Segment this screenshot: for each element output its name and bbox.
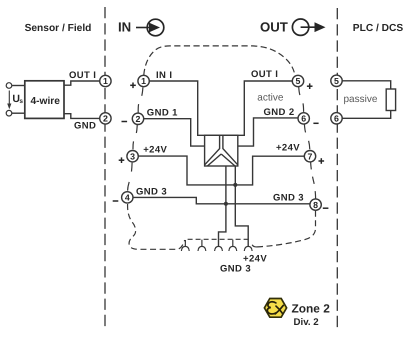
- device dashed outline top arc: [128, 46, 316, 249]
- terminal circle B1: [100, 75, 111, 86]
- svg-text:GND 3: GND 3: [273, 193, 304, 204]
- device outline seg 2-3: [133, 125, 137, 150]
- polarity + at terminal 1: [130, 83, 136, 89]
- svg-text:4-wire: 4-wire: [30, 96, 60, 107]
- svg-text:OUT I: OUT I: [69, 70, 96, 81]
- svg-text:GND 2: GND 2: [264, 107, 295, 118]
- svg-text:GND: GND: [74, 120, 96, 131]
- device terminal 6: [298, 113, 309, 124]
- svg-text:passive: passive: [344, 94, 378, 105]
- svg-text:Div. 2: Div. 2: [294, 317, 319, 328]
- isolator U1 (3-port isolation symbol): [205, 135, 238, 166]
- device terminal 3: [127, 151, 138, 162]
- wire field top to 4-wire box: [12, 85, 25, 87]
- polarity - at terminal 6: [313, 122, 318, 124]
- device outline seg 6-7: [304, 124, 309, 150]
- svg-text:Sensor / Field: Sensor / Field: [25, 23, 92, 34]
- device outline bottom row through plugs: [188, 238, 250, 240]
- plug contact 2: [198, 240, 206, 251]
- field terminal bottom: [6, 110, 12, 116]
- 4-wire transmitter box: [25, 81, 64, 119]
- field terminal top: [6, 83, 12, 89]
- svg-text:OUT I: OUT I: [251, 69, 278, 80]
- terminal circle B6: [331, 113, 342, 124]
- svg-text:IN I: IN I: [156, 70, 172, 81]
- svg-text:5: 5: [296, 76, 301, 86]
- source voltage arrow Us: [7, 91, 23, 110]
- svg-text:GND 1: GND 1: [147, 107, 178, 118]
- polarity + at terminal 5: [307, 83, 313, 89]
- wire GND 1 to isolator: [144, 119, 205, 146]
- svg-text:6: 6: [334, 114, 339, 124]
- junction dot GND 3: [224, 202, 228, 206]
- device outline seg 7-8: [311, 162, 316, 199]
- wire isolator +24V branch to plug 5: [235, 166, 248, 247]
- polarity - at terminal 4: [113, 200, 119, 202]
- wire +24V rail: [138, 156, 304, 185]
- terminal circle B5: [331, 75, 342, 86]
- svg-text:2: 2: [103, 114, 108, 124]
- svg-text:2: 2: [136, 114, 141, 124]
- svg-text:GND 3: GND 3: [220, 264, 251, 275]
- polarity - at terminal 2: [122, 121, 128, 123]
- device outline seg 5-6: [299, 87, 304, 113]
- svg-text:1: 1: [141, 76, 146, 86]
- zone boundary dashed line left (Sensor/Field): [104, 7, 106, 330]
- device terminal 7: [304, 151, 315, 162]
- passive load loop wires: [342, 81, 391, 89]
- svg-text:6: 6: [301, 114, 306, 124]
- device terminal 2: [132, 113, 143, 124]
- Ex hazardous area symbol: [264, 299, 286, 318]
- svg-text:4: 4: [125, 193, 130, 203]
- svg-text:Zone 2: Zone 2: [292, 302, 331, 316]
- resistor load R: [386, 89, 395, 111]
- svg-text:7: 7: [308, 151, 313, 161]
- device outline seg 3-4: [128, 163, 133, 191]
- polarity + at terminal 7: [319, 158, 325, 164]
- device outline seg 4-bottom: [128, 204, 185, 249]
- wire isolator GND branch to plug 3: [219, 166, 226, 247]
- svg-text:+24V: +24V: [276, 143, 300, 154]
- terminal circle B2: [100, 113, 111, 124]
- OUT label with output arrow icon: [260, 19, 326, 35]
- svg-text:IN: IN: [118, 19, 131, 34]
- plug contact 4: [229, 240, 237, 251]
- device terminal 8: [310, 199, 321, 210]
- wire IN I to isolator and OUT I from isolator: [149, 81, 292, 135]
- wire 4-wire GND to terminal 2: [64, 114, 100, 119]
- IN label with input arrow icon: [118, 19, 164, 36]
- svg-text:s: s: [19, 98, 23, 105]
- svg-text:active: active: [257, 92, 284, 103]
- device outline seg 1-2: [138, 87, 143, 113]
- svg-text:OUT: OUT: [260, 19, 288, 34]
- svg-text:GND 3: GND 3: [136, 187, 167, 198]
- svg-text:PLC / DCS: PLC / DCS: [353, 23, 404, 34]
- wire GND 2 from isolator: [238, 118, 298, 146]
- wire field bottom to 4-wire box: [12, 112, 25, 114]
- polarity - at terminal 8: [323, 207, 329, 209]
- svg-text:1: 1: [103, 76, 108, 86]
- svg-text:8: 8: [313, 200, 318, 210]
- plug contact 3: [215, 246, 223, 251]
- zone boundary dashed line right (PLC/DCS): [336, 8, 338, 330]
- device terminal 5: [292, 75, 303, 86]
- junction dot +24V: [233, 183, 237, 187]
- wire 4-wire OUT I to terminal 1: [64, 81, 100, 85]
- plug contact 1: [181, 240, 189, 251]
- svg-text:+24V: +24V: [143, 144, 167, 155]
- device terminal 4: [122, 192, 133, 203]
- device terminal 1: [138, 75, 149, 86]
- plug contact 5: [244, 246, 252, 251]
- wire GND 3 rail: [133, 197, 310, 203]
- polarity + at terminal 3: [119, 157, 125, 163]
- svg-text:5: 5: [334, 76, 339, 86]
- device outline bottom right curve to 8: [252, 211, 316, 247]
- svg-text:3: 3: [130, 151, 135, 161]
